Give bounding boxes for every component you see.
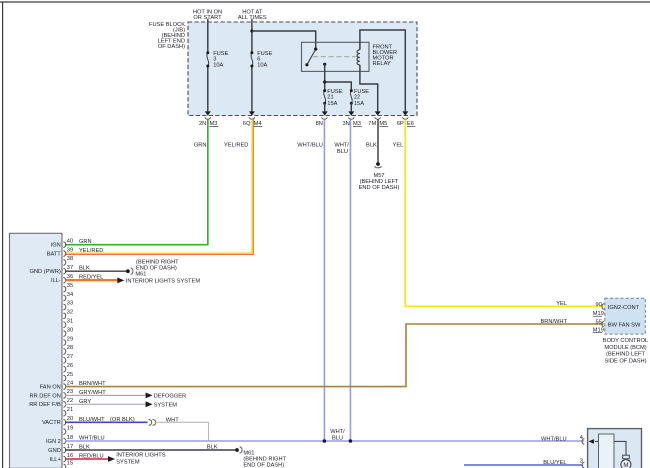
label: FUSE BLOCK (J/B) (BEHIND LEFT END OF DASH) xyxy=(149,22,185,50)
BCM pin 55 chevron xyxy=(602,321,604,327)
wire RED/YEL pin 36 to interior lights xyxy=(65,279,117,281)
svg-text:INTERIOR LIGHTS: INTERIOR LIGHTS xyxy=(116,453,166,459)
svg-text:ILL+: ILL+ xyxy=(50,457,62,463)
wire to fuse 21 xyxy=(324,82,326,91)
motor pin 4 chevron xyxy=(582,439,584,445)
motor M1 circle xyxy=(621,460,631,468)
svg-text:ILL-: ILL- xyxy=(51,278,61,284)
svg-text:YEL/RED: YEL/RED xyxy=(79,248,103,254)
motor terminal block xyxy=(623,455,630,459)
ground M57 xyxy=(359,162,400,191)
exit arrows at fuse block bottom edge xyxy=(205,111,408,115)
svg-text:21: 21 xyxy=(327,95,333,101)
svg-text:32: 32 xyxy=(67,310,73,316)
inline splice arcs xyxy=(149,420,156,426)
svg-text:WHT/: WHT/ xyxy=(330,429,345,435)
svg-text:BLU/YEL: BLU/YEL xyxy=(543,460,566,466)
svg-text:YEL: YEL xyxy=(393,142,404,148)
wire colour labels at pins xyxy=(79,239,135,459)
svg-text:26: 26 xyxy=(67,363,73,369)
svg-text:SYSTEM: SYSTEM xyxy=(116,459,140,465)
relay U1 front blower motor relay box xyxy=(302,42,370,71)
motor pin 3 chevron xyxy=(582,462,584,468)
svg-text:SIDE OF DASH): SIDE OF DASH) xyxy=(604,359,646,365)
svg-text:IGN: IGN xyxy=(51,243,61,249)
svg-text:6P: 6P xyxy=(397,121,404,127)
svg-text:34: 34 xyxy=(67,292,73,298)
svg-text:28: 28 xyxy=(67,345,73,351)
svg-text:35: 35 xyxy=(67,283,73,289)
wire BLU/WHT pin 20 to splice xyxy=(65,421,148,423)
relay actuation dashed link xyxy=(313,56,357,58)
svg-text:SYSTEM: SYSTEM xyxy=(154,402,178,408)
pin numbers 40..15 xyxy=(67,239,73,467)
svg-text:M: M xyxy=(623,462,628,468)
wire BLK from 7M to ground M57 xyxy=(377,119,379,162)
svg-text:31: 31 xyxy=(67,319,73,325)
wire relay common to fuses 21/22 xyxy=(325,64,352,90)
svg-text:16: 16 xyxy=(67,453,73,459)
svg-text:36: 36 xyxy=(67,274,73,280)
svg-text:MODULE (BCM): MODULE (BCM) xyxy=(604,345,646,351)
wire BLU/YEL to motor pin 3 xyxy=(464,464,583,466)
svg-text:23: 23 xyxy=(67,389,73,395)
labels YEL / 90 / M19 / IGN2-CONT xyxy=(556,301,639,317)
svg-text:GRN: GRN xyxy=(194,142,207,148)
svg-text:10A: 10A xyxy=(257,62,267,68)
svg-text:3: 3 xyxy=(580,458,583,464)
wire GRY/WHT pin 23 to defogger xyxy=(65,394,146,396)
svg-text:17: 17 xyxy=(67,444,73,450)
svg-text:BW FAN SW: BW FAN SW xyxy=(608,323,641,329)
svg-text:39: 39 xyxy=(67,247,73,253)
wire RED/BLU pin 16 to interior lights xyxy=(65,458,108,460)
svg-text:55: 55 xyxy=(595,320,601,326)
svg-text:4: 4 xyxy=(580,435,583,441)
BCM body control module box xyxy=(605,298,646,334)
svg-text:BLU: BLU xyxy=(337,149,348,155)
blower motor box xyxy=(588,429,642,468)
svg-text:GND: GND xyxy=(48,448,61,454)
fuse 3 10A xyxy=(206,51,228,68)
ground M61 (pin 17) xyxy=(235,447,286,468)
svg-text:FAN ON: FAN ON xyxy=(40,385,61,391)
wire YEL/RED from 6Q to pin 39 xyxy=(65,119,252,253)
svg-text:BLK: BLK xyxy=(207,445,218,451)
underline M19 pin 90 xyxy=(593,315,602,317)
svg-text:END OF DASH): END OF DASH) xyxy=(243,463,284,468)
svg-text:BLU: BLU xyxy=(332,435,343,441)
svg-text:WHT: WHT xyxy=(166,417,179,423)
wire YEL from 6P to BCM pin 90 xyxy=(405,119,603,306)
svg-text:BODY CONTROL: BODY CONTROL xyxy=(603,338,648,344)
svg-text:YEL/RED: YEL/RED xyxy=(224,142,248,148)
junction 3N wire xyxy=(349,439,353,443)
underlines for connector refs M3 M4 M3 M5 E6 xyxy=(210,125,416,127)
svg-text:15A: 15A xyxy=(354,101,364,107)
svg-text:M61: M61 xyxy=(135,271,146,277)
svg-text:40: 40 xyxy=(67,239,73,245)
relay coil xyxy=(357,50,360,65)
junction at relay common feed xyxy=(323,80,326,83)
relay switch contacts xyxy=(305,48,326,67)
wire coil top to 6P exit xyxy=(360,30,405,112)
wire WHT/BLU pin 18 to blower motor pin 4 xyxy=(65,440,584,442)
connector pin labels 2N M3 / 6Q M4 / 8N / 3N M3 / 7M M5 / 6P E6 xyxy=(199,121,414,127)
svg-text:37: 37 xyxy=(67,265,73,271)
fuse 6 10A xyxy=(250,51,272,68)
svg-text:38: 38 xyxy=(67,256,73,262)
svg-text:WHT/: WHT/ xyxy=(334,142,349,148)
svg-text:24: 24 xyxy=(67,380,73,386)
junction hot-at-all-times xyxy=(250,29,253,32)
svg-text:19: 19 xyxy=(67,425,73,431)
connector arcs below fuse block xyxy=(205,117,408,119)
pin chevrons 40..15 xyxy=(63,242,65,468)
svg-text:27: 27 xyxy=(67,354,73,360)
svg-text:18: 18 xyxy=(67,435,73,441)
wire colour labels below fuse block xyxy=(194,142,403,155)
wire feed through fuse 3 xyxy=(207,19,209,112)
wire GRN from 2N to pin 40 xyxy=(65,119,208,244)
ground M61 (right of dash) xyxy=(126,259,179,277)
svg-text:BATT: BATT xyxy=(47,252,62,258)
fuse 22 15A xyxy=(350,89,369,112)
wire coil bottom to 7M exit xyxy=(360,65,378,112)
svg-text:7M: 7M xyxy=(368,121,376,127)
pin labels 4 / 3 xyxy=(580,435,583,465)
blower inner duct rectangle xyxy=(599,434,615,468)
svg-text:6Q: 6Q xyxy=(243,121,251,127)
svg-text:WHT/BLU: WHT/BLU xyxy=(297,142,323,148)
svg-text:RR DEF ON: RR DEF ON xyxy=(30,393,61,399)
svg-text:22: 22 xyxy=(67,398,73,404)
svg-text:15: 15 xyxy=(67,461,73,467)
connector box (left module) xyxy=(10,233,63,468)
svg-text:GRN: GRN xyxy=(79,239,92,245)
svg-text:15A: 15A xyxy=(327,101,337,107)
left side pin function labels xyxy=(29,243,61,463)
svg-text:INTERIOR LIGHTS SYSTEM: INTERIOR LIGHTS SYSTEM xyxy=(126,278,201,284)
internal arrow at pin 4 xyxy=(589,439,595,444)
fuse 21 15A xyxy=(323,89,342,112)
node HOT IN ON OR START xyxy=(193,10,222,22)
svg-text:22: 22 xyxy=(354,95,360,101)
svg-text:10A: 10A xyxy=(213,62,223,68)
wire WHT/BLU from 8N down xyxy=(323,119,325,441)
svg-text:VACTR: VACTR xyxy=(42,420,61,426)
wire junction to relay switch contact xyxy=(252,31,316,49)
svg-text:DEFOGGER: DEFOGGER xyxy=(154,393,187,399)
svg-text:21: 21 xyxy=(67,407,73,413)
fuse block J/B box xyxy=(188,22,417,116)
label FRONT BLOWER MOTOR RELAY xyxy=(373,44,398,67)
svg-text:BLK: BLK xyxy=(366,142,377,148)
svg-text:2N: 2N xyxy=(199,121,206,127)
wire BLK pin 17 to ground M61 xyxy=(65,449,235,451)
svg-text:3N: 3N xyxy=(343,121,350,127)
svg-text:GND (PWR): GND (PWR) xyxy=(30,269,61,275)
svg-text:IGN 2: IGN 2 xyxy=(46,439,61,445)
wire GRY pin 22 to system xyxy=(65,403,146,405)
underline M19 pin 55 xyxy=(593,332,602,334)
label WHT/BLU at junctions xyxy=(330,429,345,441)
svg-text:END OF DASH): END OF DASH) xyxy=(359,185,400,191)
wire WHT/BLU from 3N down xyxy=(349,119,351,441)
wire feed through fuse 6 xyxy=(251,19,253,112)
svg-text:WHT/BLU: WHT/BLU xyxy=(541,436,567,442)
svg-text:20: 20 xyxy=(67,416,73,422)
svg-text:YEL: YEL xyxy=(556,301,567,307)
internal wire to motor xyxy=(595,441,626,455)
svg-text:OF DASH): OF DASH) xyxy=(158,44,185,50)
svg-text:(BEHIND LEFT: (BEHIND LEFT xyxy=(606,352,645,358)
BCM caption xyxy=(603,338,648,365)
wire WHT from splice down to blower feed xyxy=(155,422,209,441)
svg-text:IGN2-CONT: IGN2-CONT xyxy=(608,305,640,311)
svg-text:29: 29 xyxy=(67,336,73,342)
BCM pin 90 chevron xyxy=(602,304,604,310)
svg-text:BRN/WHT: BRN/WHT xyxy=(540,319,567,325)
svg-text:RR DEF F/B: RR DEF F/B xyxy=(29,402,61,408)
svg-text:33: 33 xyxy=(67,301,73,307)
svg-text:8N: 8N xyxy=(316,121,323,127)
svg-text:30: 30 xyxy=(67,327,73,333)
node HOT AT ALL TIMES xyxy=(238,10,267,22)
svg-text:RELAY: RELAY xyxy=(373,61,391,67)
labels BRN/WHT / 55 / M19 / BW FAN SW xyxy=(540,319,641,334)
junction 8N wire xyxy=(323,439,327,443)
svg-text:25: 25 xyxy=(67,372,73,378)
svg-text:90: 90 xyxy=(595,302,601,308)
wire BRN/WHT pin 24 to BCM pin 55 xyxy=(65,324,604,387)
wire BLK pin 37 to ground M61 xyxy=(65,270,126,272)
